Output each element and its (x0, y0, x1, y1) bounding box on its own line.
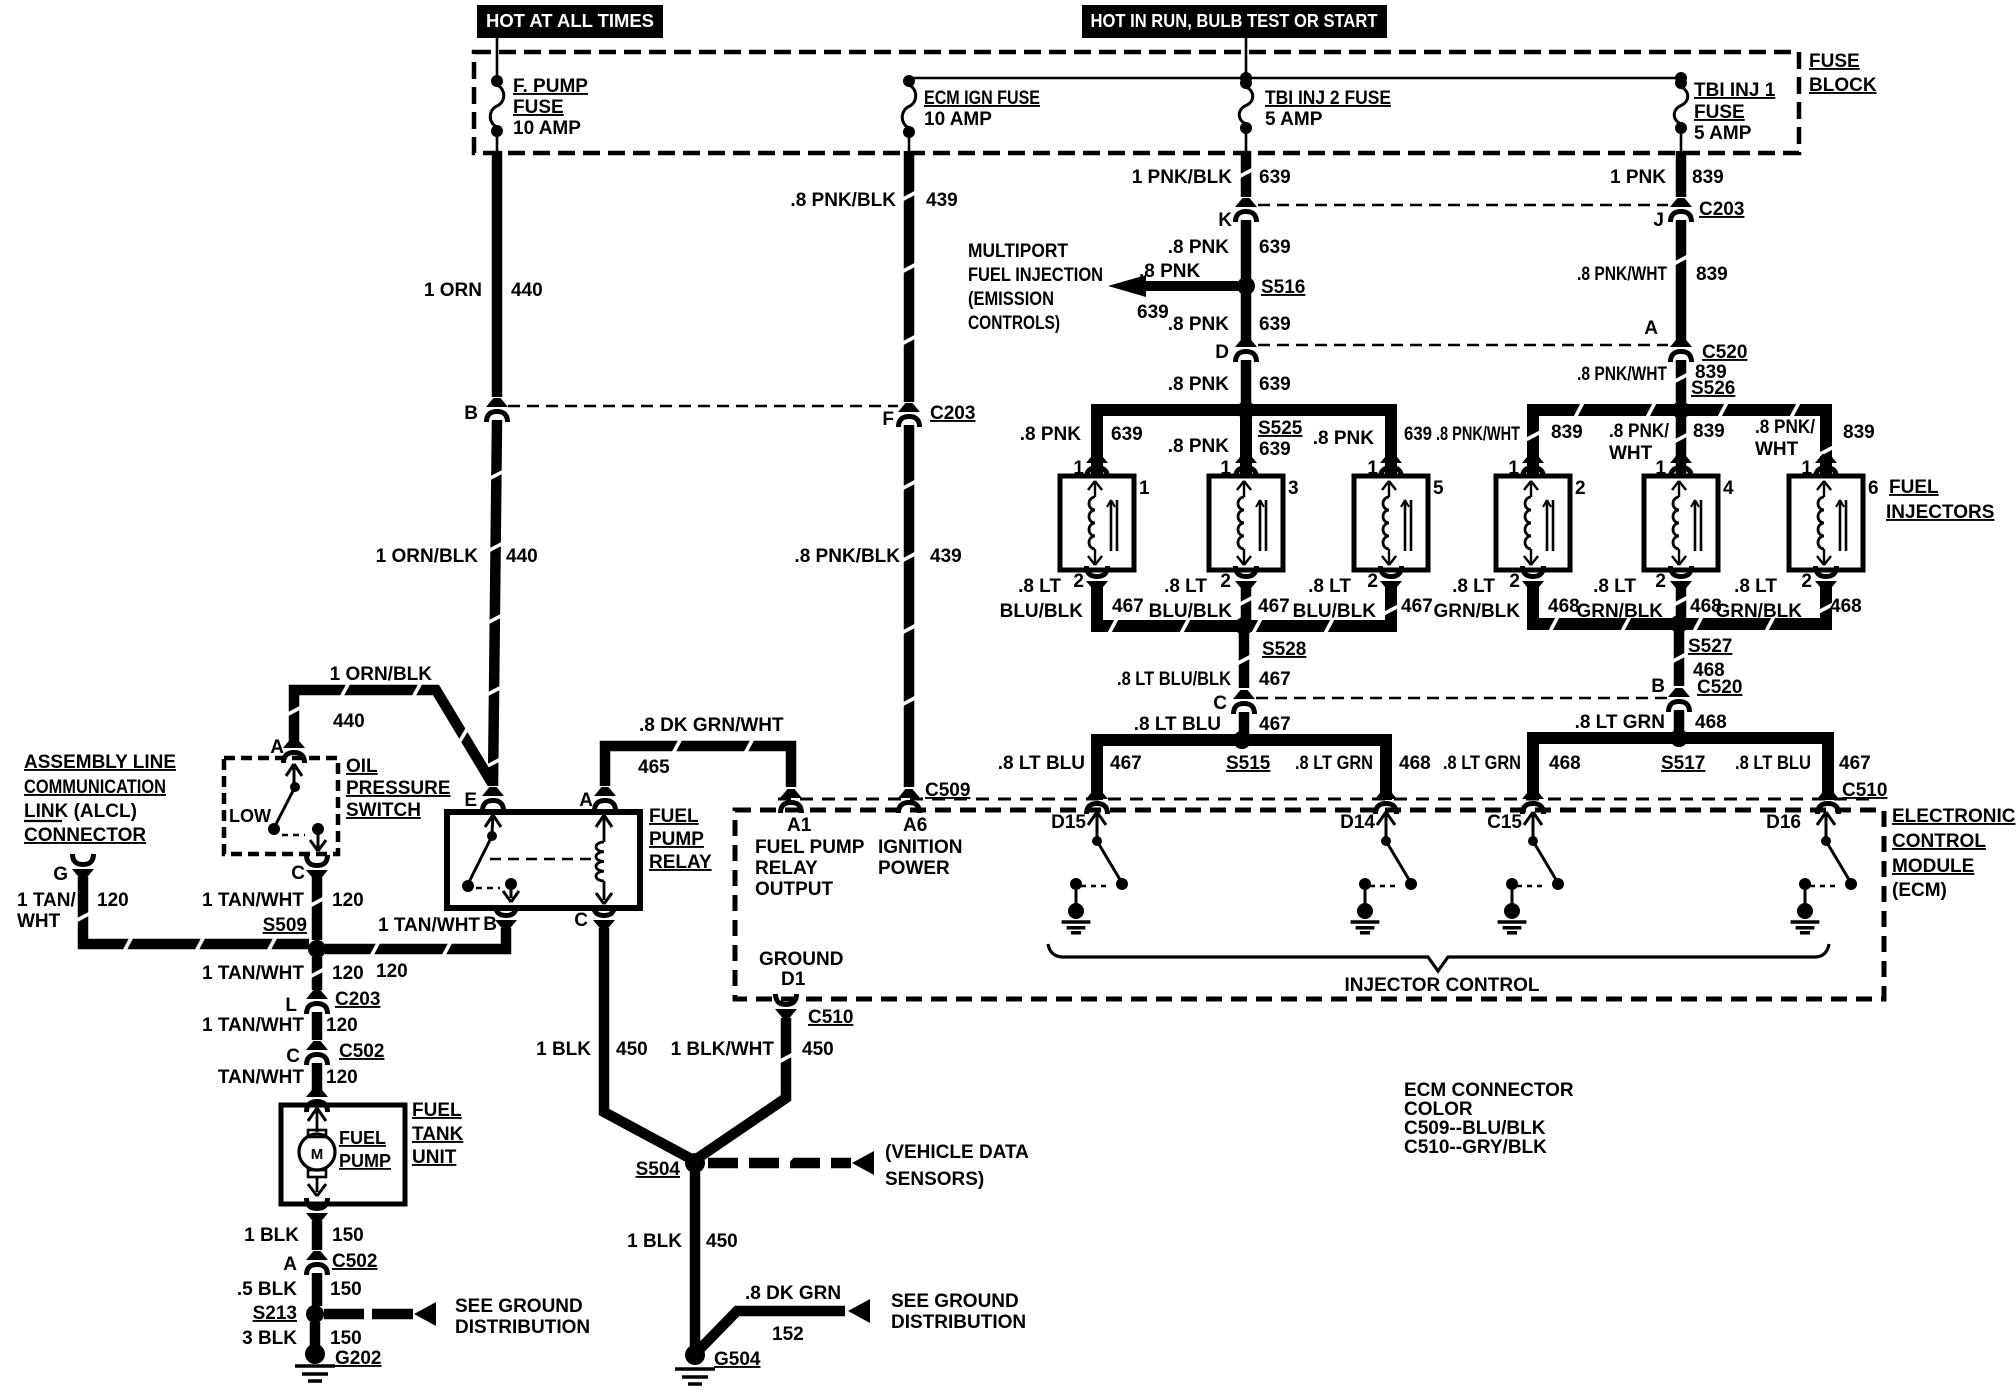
svg-text:120: 120 (326, 1015, 358, 1036)
svg-text:FUEL: FUEL (649, 806, 699, 827)
splice S213 (253, 1303, 324, 1324)
svg-text:.8 LT GRN: .8 LT GRN (1295, 753, 1373, 774)
connector B C520 (1651, 676, 1742, 712)
svg-text:MODULE: MODULE (1892, 856, 1974, 877)
wire fuse bus (909, 77, 1681, 80)
svg-text:120: 120 (326, 1067, 358, 1088)
svg-text:1 BLK: 1 BLK (536, 1039, 591, 1060)
fuse TBI INJ 1 FUSE 5 AMP (1674, 77, 1775, 155)
svg-text:10 AMP: 10 AMP (513, 118, 581, 139)
label .8 PNK/BLK 439 lower (794, 546, 961, 567)
svg-text:C: C (574, 910, 588, 931)
svg-text:C: C (291, 863, 305, 884)
svg-text:120: 120 (332, 890, 364, 911)
svg-text:.8 PNK: .8 PNK (1020, 424, 1082, 445)
svg-text:639: 639 (1137, 302, 1169, 323)
svg-text:439: 439 (930, 546, 962, 567)
fuse TBI INJ 2 FUSE 5 AMP (1239, 77, 1391, 155)
svg-text:1 TAN/WHT: 1 TAN/WHT (202, 1015, 304, 1036)
fuel pump motor (299, 1108, 391, 1196)
wire 1 TAN/WHT 120 ALCL to S509 (76, 877, 309, 951)
label ELECTRONIC CONTROL MODULE (ECM) (1892, 806, 2016, 901)
svg-text:A6: A6 (903, 815, 927, 836)
svg-text:1 ORN/BLK: 1 ORN/BLK (330, 664, 433, 685)
pin G ALCL connector (53, 854, 94, 885)
label .8 PNK above arrow (1139, 261, 1201, 282)
connector A C502 (283, 1251, 377, 1275)
svg-text:FUEL: FUEL (412, 1100, 462, 1121)
svg-text:M: M (311, 1146, 324, 1163)
svg-text:120: 120 (332, 963, 364, 984)
svg-text:G: G (53, 864, 68, 885)
wire .8 LT BLU 467 C to S515 (1239, 712, 1250, 734)
svg-text:3 BLK: 3 BLK (242, 1328, 297, 1349)
label S527 468 (1688, 636, 1732, 681)
svg-text:S528: S528 (1262, 639, 1306, 660)
fuel pump relay box (447, 812, 640, 908)
brace injector control (1048, 944, 1829, 971)
label 1 TAN/WHT 120 below S509 (202, 963, 364, 984)
wire 3 BLK 150 (310, 1322, 321, 1348)
svg-text:1 ORN/BLK: 1 ORN/BLK (376, 546, 479, 567)
svg-text:1 TAN/: 1 TAN/ (17, 890, 76, 911)
fuel pump relay label (649, 806, 712, 873)
svg-text:OUTPUT: OUTPUT (755, 879, 834, 900)
svg-text:.8 PNK: .8 PNK (1168, 237, 1230, 258)
svg-text:HOT IN RUN, BULB TEST OR START: HOT IN RUN, BULB TEST OR START (1091, 11, 1378, 31)
svg-text:.8 PNK/WHT: .8 PNK/WHT (1577, 264, 1667, 285)
svg-text:S525: S525 (1258, 418, 1303, 439)
svg-text:IGNITION: IGNITION (878, 837, 962, 858)
svg-text:G504: G504 (714, 1349, 761, 1370)
wire TAN/WHT 120 C to tank (312, 1063, 323, 1092)
fuse block label (1809, 51, 1877, 96)
svg-text:468: 468 (1549, 753, 1581, 774)
label S517 (1661, 753, 1705, 774)
label .8 PNK 639 upper (1168, 237, 1291, 258)
oil pressure switch contacts (229, 764, 326, 851)
svg-text:468: 468 (1830, 596, 1862, 617)
label 3 BLK 150 (242, 1328, 362, 1349)
pin C fuel pump relay (574, 905, 615, 931)
svg-text:.8 PNK/WHT: .8 PNK/WHT (1577, 364, 1667, 385)
arrow see ground distribution left (414, 1302, 436, 1326)
connector F C203 (882, 403, 975, 430)
label 1 BLK 450 (536, 1039, 648, 1060)
svg-text:S526: S526 (1691, 378, 1735, 399)
svg-text:839: 839 (1696, 264, 1728, 285)
svg-text:120: 120 (376, 961, 408, 982)
fuel injector 2 (1496, 454, 1586, 590)
svg-text:COLOR: COLOR (1404, 1099, 1473, 1120)
svg-text:WHT: WHT (1755, 439, 1799, 460)
svg-text:467: 467 (1258, 596, 1290, 617)
pin E fuel pump relay (464, 787, 504, 811)
connector L C203 (285, 989, 380, 1016)
label .8 LT GRN/BLK 468 inj2 (1433, 576, 1579, 622)
svg-text:1 ORN: 1 ORN (424, 280, 482, 301)
oil pressure switch box (224, 758, 338, 854)
label .8 PNK/WHT 839 inj4 (1609, 421, 1725, 464)
dashed connector line C203 B-F (508, 405, 898, 407)
wire .8 LT GRN/BLK 468 S527 to B (1672, 630, 1685, 686)
dashed connector line C203 K-J (1258, 204, 1668, 206)
svg-text:.8 LT BLU: .8 LT BLU (1735, 753, 1811, 774)
svg-text:E: E (464, 790, 477, 811)
pin C oil pressure switch (291, 855, 328, 884)
svg-text:GRN/BLK: GRN/BLK (1715, 601, 1802, 622)
wire 1 PNK 839 (1676, 151, 1687, 197)
svg-text:S516: S516 (1261, 277, 1305, 298)
svg-text:D15: D15 (1051, 812, 1086, 833)
splice S527 bus (1533, 583, 1833, 633)
connector C509 label (925, 780, 970, 801)
svg-text:1 BLK/WHT: 1 BLK/WHT (671, 1039, 775, 1060)
svg-text:ASSEMBLY LINE: ASSEMBLY LINE (24, 752, 176, 773)
label .8 PNK/WHT 839 upper (1577, 264, 1728, 285)
svg-text:RELAY: RELAY (755, 858, 818, 879)
svg-text:.8 PNK: .8 PNK (1313, 428, 1375, 449)
svg-text:.8 LT: .8 LT (1018, 576, 1061, 597)
svg-text:639: 639 (1259, 167, 1291, 188)
svg-text:3: 3 (1288, 478, 1299, 499)
wire .8 PNK/WHT 839 A to S526 (1674, 360, 1687, 402)
svg-text:BLU/BLK: BLU/BLK (1000, 601, 1084, 622)
svg-text:6: 6 (1868, 478, 1879, 499)
svg-text:GRN/BLK: GRN/BLK (1433, 601, 1520, 622)
pin 2 labels (1073, 571, 1812, 592)
svg-text:1 TAN/WHT: 1 TAN/WHT (202, 963, 304, 984)
wire 1 BLK 150 (312, 1221, 323, 1250)
ECM dashed box (735, 810, 1884, 999)
label .8 LT BLU/BLK 467 inj3 (1149, 576, 1290, 622)
relay coil (596, 815, 612, 904)
dashed connector line C520 D-A (1258, 344, 1668, 346)
svg-text:ECM CONNECTOR: ECM CONNECTOR (1404, 1080, 1574, 1101)
label 1 PNK 839 (1610, 167, 1724, 188)
label TAN/WHT 120 (218, 1067, 358, 1088)
wire 1 BLK 450 relay C to S504 (604, 928, 695, 1161)
svg-text:.8 LT: .8 LT (1593, 576, 1636, 597)
wire 1 TAN/WHT 120 S509 to L (310, 957, 323, 990)
svg-text:A: A (270, 737, 284, 758)
svg-text:.8 LT BLU: .8 LT BLU (998, 753, 1085, 774)
svg-text:WHT: WHT (17, 911, 61, 932)
header box HOT IN RUN, BULB TEST OR START (1082, 5, 1387, 38)
svg-text:L: L (285, 995, 297, 1016)
svg-text:TAN/WHT: TAN/WHT (218, 1067, 305, 1088)
svg-text:C520: C520 (1697, 677, 1742, 698)
svg-text:FUEL: FUEL (339, 1128, 386, 1148)
svg-text:B: B (1651, 676, 1665, 697)
svg-text:PRESSURE: PRESSURE (346, 778, 451, 799)
svg-text:839: 839 (1692, 167, 1724, 188)
svg-text:C502: C502 (339, 1041, 384, 1062)
svg-text:B: B (483, 914, 497, 935)
ECM injector driver D16 (1766, 812, 1857, 933)
label 1 TAN/WHT 120 ALCL (17, 890, 129, 932)
svg-text:B: B (464, 403, 478, 424)
label .8 PNK 639 inj5 (1313, 424, 1432, 449)
pin D1 ECM (775, 994, 853, 1028)
ECM pin chevrons at S515 S517 legs (1086, 790, 1839, 814)
svg-text:.8 PNK: .8 PNK (1168, 314, 1230, 335)
svg-text:BLU/BLK: BLU/BLK (1149, 601, 1233, 622)
label .8 LT GRN/BLK 468 inj4 (1576, 576, 1721, 622)
label S525 639 (1258, 418, 1303, 460)
svg-text:F: F (882, 409, 894, 430)
svg-text:S509: S509 (263, 915, 307, 936)
label .8 LT BLU 467 S517 right (1735, 753, 1871, 774)
connector J C203 (1653, 198, 1744, 231)
wire .8 LT BLU/BLK 467 S528 to C (1237, 632, 1250, 688)
splice S516 (1237, 277, 1305, 298)
svg-text:467: 467 (1401, 596, 1433, 617)
svg-text:5 AMP: 5 AMP (1694, 123, 1752, 144)
svg-text:.8 DK GRN/WHT: .8 DK GRN/WHT (639, 715, 784, 736)
svg-text:DISTRIBUTION: DISTRIBUTION (891, 1312, 1026, 1333)
fuel injector 6 (1789, 454, 1879, 590)
svg-text:465: 465 (638, 757, 670, 778)
wire .8 PNK/BLK 439 upper (902, 151, 915, 402)
arrow vehicle data sensors (852, 1151, 874, 1175)
wire hot-at-all-times feed (496, 38, 499, 76)
fuse F.PUMP FUSE 10 AMP (490, 75, 588, 155)
label .8 PNK inj3 (1168, 436, 1230, 457)
svg-text:TANK: TANK (412, 1124, 464, 1145)
svg-text:HOT AT ALL TIMES: HOT AT ALL TIMES (486, 11, 654, 31)
relay internal dashed link (490, 858, 596, 861)
svg-text:COMMUNICATION: COMMUNICATION (24, 777, 166, 798)
svg-text:C510--GRY/BLK: C510--GRY/BLK (1404, 1137, 1547, 1158)
wire 1 PNK/BLK 639 (1239, 151, 1252, 197)
svg-text:2: 2 (1073, 571, 1084, 592)
label 1 PNK/BLK 639 (1132, 167, 1291, 188)
svg-text:1 TAN/WHT: 1 TAN/WHT (378, 915, 480, 936)
label 1 ORN/BLK 440 branch (330, 664, 433, 732)
connector C C502 (286, 1041, 384, 1067)
svg-text:G202: G202 (335, 1348, 381, 1369)
svg-text:MULTIPORT: MULTIPORT (968, 241, 1068, 262)
ALCL LINK underline (24, 820, 62, 822)
svg-text:5: 5 (1433, 478, 1444, 499)
svg-text:440: 440 (511, 280, 543, 301)
label 639 below arrow (1137, 302, 1169, 323)
label GROUND D1 (759, 949, 843, 990)
svg-text:SWITCH: SWITCH (346, 800, 421, 821)
svg-text:467: 467 (1112, 596, 1144, 617)
svg-text:120: 120 (97, 890, 129, 911)
svg-text:839: 839 (1843, 422, 1875, 443)
svg-text:1 BLK: 1 BLK (244, 1225, 299, 1246)
label 1 ORN 440 (424, 280, 543, 301)
svg-text:C502: C502 (332, 1251, 377, 1272)
label .8 LT GRN 468 (1575, 712, 1727, 733)
svg-text:S527: S527 (1688, 636, 1732, 657)
svg-text:.8 PNK/BLK: .8 PNK/BLK (790, 190, 896, 211)
label .8 PNK 639 mid (1168, 314, 1291, 335)
splice S528 bus (1097, 583, 1398, 635)
label .8 LT GRN 468 S517 left (1443, 753, 1581, 774)
wire 1 BLK/WHT 450 D1 to S504 (695, 1018, 793, 1160)
label MULTIPORT FUEL INJECTION (EMISSION CONTROLS) (968, 241, 1103, 334)
fuel injector 4 (1644, 454, 1734, 590)
wire 1 TAN/WHT 120 L to C (312, 1012, 323, 1040)
svg-text:INJECTOR CONTROL: INJECTOR CONTROL (1345, 975, 1540, 996)
svg-text:A: A (579, 790, 593, 811)
svg-text:2: 2 (1801, 571, 1812, 592)
svg-text:450: 450 (802, 1039, 834, 1060)
svg-text:WHT: WHT (1609, 443, 1653, 464)
svg-text:639: 639 (1259, 374, 1291, 395)
svg-text:(ECM): (ECM) (1892, 880, 1947, 901)
svg-text:468: 468 (1548, 596, 1580, 617)
label A1 FUEL PUMP RELAY OUTPUT (755, 815, 865, 900)
wire .8 LT GRN 468 B to S517 (1674, 710, 1685, 732)
label .8 DK GRN/WHT 465 (638, 715, 784, 778)
svg-text:FUEL: FUEL (1889, 477, 1939, 498)
header box HOT AT ALL TIMES (477, 5, 663, 38)
pin A6 ECM (898, 789, 920, 813)
svg-text:.8 DK GRN: .8 DK GRN (745, 1283, 841, 1304)
label (VEHICLE DATA SENSORS) (885, 1142, 1029, 1190)
splice S509 (263, 915, 326, 958)
svg-text:SEE GROUND: SEE GROUND (891, 1291, 1019, 1312)
svg-text:467: 467 (1110, 753, 1142, 774)
label S528 (1262, 639, 1306, 660)
svg-text:BLOCK: BLOCK (1809, 75, 1877, 96)
label .8 LT GRN/BLK 468 inj6 (1715, 576, 1861, 622)
svg-text:S515: S515 (1226, 753, 1271, 774)
svg-text:OIL: OIL (346, 756, 378, 777)
label SEE GROUND DISTRIBUTION left (455, 1296, 590, 1338)
fuel tank unit label (412, 1100, 464, 1168)
splice S525 bus (1097, 401, 1391, 476)
svg-text:F. PUMP: F. PUMP (513, 76, 588, 97)
svg-text:.8 LT: .8 LT (1164, 576, 1207, 597)
svg-text:.8 LT: .8 LT (1452, 576, 1495, 597)
svg-text:PUMP: PUMP (339, 1151, 391, 1171)
wire .5 BLK 150 (312, 1273, 323, 1306)
fuse block dashed box (474, 52, 1799, 153)
pin A1 ECM (780, 789, 802, 813)
svg-text:2: 2 (1655, 571, 1666, 592)
svg-text:2: 2 (1575, 478, 1586, 499)
svg-text:450: 450 (616, 1039, 648, 1060)
svg-text:468: 468 (1399, 753, 1431, 774)
splice S526 bus (1526, 401, 1832, 476)
svg-text:PUMP: PUMP (649, 829, 704, 850)
pin A fuel pump relay (579, 787, 616, 811)
svg-text:150: 150 (330, 1279, 362, 1300)
svg-text:S213: S213 (253, 1303, 297, 1324)
svg-text:C203: C203 (335, 989, 380, 1010)
fuel tank unit box (281, 1105, 405, 1204)
ALCL connector label (24, 752, 176, 846)
svg-text:1 BLK: 1 BLK (627, 1231, 682, 1252)
svg-text:C203: C203 (1699, 199, 1744, 220)
label .8 LT BLU 467 S515 left (998, 753, 1142, 774)
svg-text:D14: D14 (1340, 812, 1375, 833)
svg-text:150: 150 (332, 1225, 364, 1246)
svg-text:839: 839 (1551, 422, 1583, 443)
svg-text:FUEL PUMP: FUEL PUMP (755, 837, 865, 858)
svg-text:S504: S504 (636, 1159, 681, 1180)
label SEE GROUND DISTRIBUTION right (891, 1291, 1026, 1333)
svg-text:S517: S517 (1661, 753, 1705, 774)
svg-text:639: 639 (1259, 237, 1291, 258)
connector C C520 (1213, 690, 1255, 714)
label FUEL INJECTORS (1886, 477, 1994, 523)
svg-text:FUSE: FUSE (1694, 102, 1745, 123)
wire 1 ORN 440 (492, 151, 503, 397)
svg-text:.8 LT GRN: .8 LT GRN (1443, 753, 1521, 774)
svg-text:D: D (1215, 342, 1229, 363)
ground G504 (675, 1345, 761, 1384)
label 1 TAN/WHT right (376, 915, 480, 982)
svg-text:467: 467 (1839, 753, 1871, 774)
svg-text:1 PNK/BLK: 1 PNK/BLK (1132, 167, 1233, 188)
pin fuel tank unit top (306, 1088, 328, 1112)
svg-text:.8 PNK: .8 PNK (1168, 436, 1230, 457)
wire .8 PNK 639 K to S516 (1241, 220, 1252, 281)
svg-text:152: 152 (772, 1324, 804, 1345)
dashed connector line C520 C-B (1256, 697, 1668, 699)
wire S213 to ground distribution (324, 1309, 413, 1320)
label .5 BLK 150 (237, 1279, 362, 1300)
dashed connector line C509-C510 face (778, 798, 1874, 801)
wire 1 TAN/WHT 120 oil switch to S509 (310, 877, 323, 940)
wire vehicle data sensors dashed (708, 1157, 851, 1170)
svg-text:.8 LT: .8 LT (1734, 576, 1777, 597)
pin 1 labels right bank (1508, 458, 1812, 479)
label 1 BLK/WHT 450 (671, 1039, 834, 1060)
label INJECTOR CONTROL (1345, 975, 1540, 996)
ECM injector driver D15 (1051, 812, 1128, 933)
svg-text:C510: C510 (808, 1007, 853, 1028)
splice S515 bus (1097, 731, 1386, 800)
svg-text:C: C (1213, 693, 1227, 714)
wire 1 ORN/BLK branch to oil pressure switch (287, 683, 492, 783)
svg-text:.8 PNK: .8 PNK (1168, 374, 1230, 395)
svg-text:2: 2 (1367, 571, 1378, 592)
splice S517 bus (1533, 729, 1828, 800)
svg-text:.8 PNK/WHT: .8 PNK/WHT (1436, 424, 1520, 445)
svg-text:440: 440 (506, 546, 538, 567)
svg-text:LINK (ALCL): LINK (ALCL) (24, 801, 137, 822)
svg-text:.8 LT: .8 LT (1308, 576, 1351, 597)
label .8 PNK/WHT 839 left of S526 (1436, 422, 1583, 445)
svg-text:.8 PNK: .8 PNK (1139, 261, 1201, 282)
label 1 ORN/BLK 440 (376, 546, 538, 567)
svg-text:BLU/BLK: BLU/BLK (1293, 601, 1377, 622)
svg-text:CONNECTOR: CONNECTOR (24, 825, 146, 846)
label .8 LT BLU 467 (1134, 714, 1291, 735)
fuel injector 3 (1209, 454, 1299, 590)
svg-text:4: 4 (1723, 478, 1734, 499)
label 1 TAN/WHT 120 (202, 890, 364, 911)
wire .8 PNK/WHT 839 J to A (1674, 220, 1687, 340)
arrow multiport fuel injection (1108, 275, 1238, 297)
label A6 IGNITION POWER (878, 815, 962, 879)
svg-text:D16: D16 (1766, 812, 1801, 833)
svg-text:467: 467 (1259, 669, 1291, 690)
label .8 LT BLU/BLK 467 (1117, 669, 1291, 690)
label .8 PNK 639 inj1 (1020, 424, 1143, 445)
svg-text:RELAY: RELAY (649, 852, 712, 873)
svg-text:467: 467 (1259, 714, 1291, 735)
pin 1 labels left bank (1073, 458, 1378, 479)
